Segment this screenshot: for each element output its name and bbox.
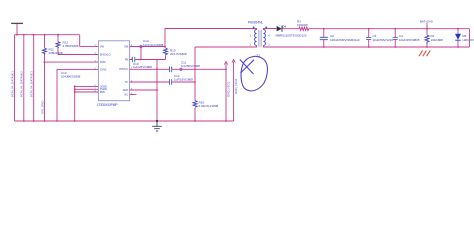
svg-text:100nF/630V/SMD/1uF: 100nF/630V/SMD/1uF (330, 38, 360, 42)
svg-text:D4: D4 (282, 25, 286, 29)
node ring 2 (180, 68, 182, 70)
resistor R11 (43, 48, 47, 55)
svg-text:NC: NC (125, 93, 129, 96)
svg-text:LT8304S/PMP: LT8304S/PMP (97, 103, 118, 107)
svg-text:1: 1 (250, 35, 252, 38)
svg-text:10k/1808: 10k/1808 (431, 38, 444, 42)
wire pin3 with column (57, 69, 98, 121)
ground symbol (152, 121, 162, 131)
svg-text:FB: FB (125, 58, 128, 61)
svg-text:10nF/1kV/1808: 10nF/1kV/1808 (143, 43, 164, 47)
wire output top rail (309, 28, 470, 30)
wire ground comb (75, 86, 99, 121)
wire left column 2 (23, 35, 25, 121)
junction dot purple (57, 34, 59, 36)
capacitor C9 plates (132, 57, 134, 63)
resistor R3 (299, 27, 309, 31)
svg-text:MBRS1100T3/SOD123: MBRS1100T3/SOD123 (276, 34, 307, 38)
svg-text:BCM_IN_DATA002: BCM_IN_DATA002 (20, 71, 24, 97)
node ring (140, 45, 142, 47)
wire primary return (195, 46, 257, 48)
resistor R4 (426, 29, 428, 47)
wire SW riser to top (165, 29, 257, 47)
wire diode to R3 (282, 28, 299, 30)
svg-text:10uF/50V/1210: 10uF/50V/1210 (373, 38, 394, 42)
svg-text:PAD: PAD (100, 91, 105, 94)
wire input bus horizontal (15, 34, 80, 36)
net arrow GND_ISO1 (225, 64, 227, 122)
wire sense column R16 (194, 47, 196, 121)
wire right edge (469, 29, 471, 47)
svg-text:2.05M/1808: 2.05M/1808 (63, 44, 79, 48)
svg-text:GND: GND (123, 89, 129, 92)
wire left column 3 (33, 35, 35, 121)
power tap T symbol (11, 22, 23, 24)
transformer core (259, 30, 261, 47)
capacitor C11 plates (169, 67, 171, 73)
svg-text:1nF/50V/1808: 1nF/50V/1808 (181, 64, 200, 68)
svg-text:BAT+5V0: BAT+5V0 (420, 19, 433, 23)
transformer secondary top stub (263, 29, 276, 30)
wire from T to bus (16, 24, 18, 35)
svg-text:TC: TC (125, 81, 128, 84)
svg-text:HZD16V: HZD16V (463, 38, 474, 42)
wire cap branch (130, 47, 166, 60)
capacitor C3 (368, 29, 370, 47)
wire SW node A (130, 46, 165, 48)
svg-text:VIN_GND: VIN_GND (40, 101, 44, 114)
wire left column 1 (14, 35, 16, 121)
pin numbers (95, 45, 134, 95)
wire INTVCC row (130, 68, 226, 70)
svg-text:204.7k/1808: 204.7k/1808 (170, 52, 187, 56)
capacitor C4 (394, 29, 396, 47)
diode D4 (277, 26, 282, 32)
wire cap left tie (156, 60, 158, 122)
resistor R10 (164, 48, 168, 56)
wire EN/UVLO (45, 61, 99, 63)
wire left column 4 (44, 35, 46, 121)
svg-text:DCM: DCM (100, 61, 105, 64)
op IC U1 LT8304S (98, 41, 129, 101)
net arrow GND_ISO2 (233, 62, 235, 122)
svg-text:SYNC: SYNC (100, 68, 107, 71)
bottom rail (15, 120, 234, 122)
svg-text:104JB63/1808: 104JB63/1808 (61, 75, 81, 79)
phasing dots (253, 27, 255, 29)
svg-text:EN/UVLO: EN/UVLO (100, 53, 111, 56)
wire NC stub (130, 94, 137, 96)
resistor R12 (58, 35, 98, 55)
capacitor C12 plates (169, 79, 171, 85)
svg-text:BCM_IN_DATA003: BCM_IN_DATA003 (30, 71, 34, 97)
svg-text:6.04k/TH/1808: 6.04k/TH/1808 (199, 104, 219, 108)
resistor R16 (193, 101, 197, 108)
svg-text:BCM_IN_DATA001: BCM_IN_DATA001 (10, 71, 14, 97)
ground earth red (419, 50, 430, 56)
annotation blob (240, 56, 268, 91)
transformer secondary bottom stub joins rail (263, 46, 469, 48)
svg-text:3: 3 (250, 44, 252, 47)
svg-text:INTVCC: INTVCC (119, 68, 128, 71)
wire GND row to ground (130, 89, 157, 91)
svg-text:VIN: VIN (100, 45, 104, 48)
svg-text:1uF/25V/1808: 1uF/25V/1808 (133, 65, 152, 69)
svg-text:PA0264NL: PA0264NL (248, 21, 263, 25)
svg-text:2: 2 (268, 44, 270, 47)
wire TC row (130, 81, 195, 83)
junction dot navy (156, 120, 158, 122)
diode D5 zener (457, 29, 459, 47)
transformer pin numbers (250, 35, 271, 47)
svg-text:1uF/16V/1808: 1uF/16V/1808 (174, 78, 193, 82)
svg-text:1R0/2W: 1R0/2W (297, 23, 308, 27)
capacitor C2 (323, 29, 325, 47)
svg-text:GND_ISO2: GND_ISO2 (234, 78, 238, 94)
svg-text:GND_ISO1: GND_ISO1 (227, 81, 231, 97)
svg-text:10uF/35V/0805: 10uF/35V/0805 (399, 38, 420, 42)
wire bus corner down to VIN (80, 35, 99, 47)
svg-text:4: 4 (268, 35, 270, 38)
